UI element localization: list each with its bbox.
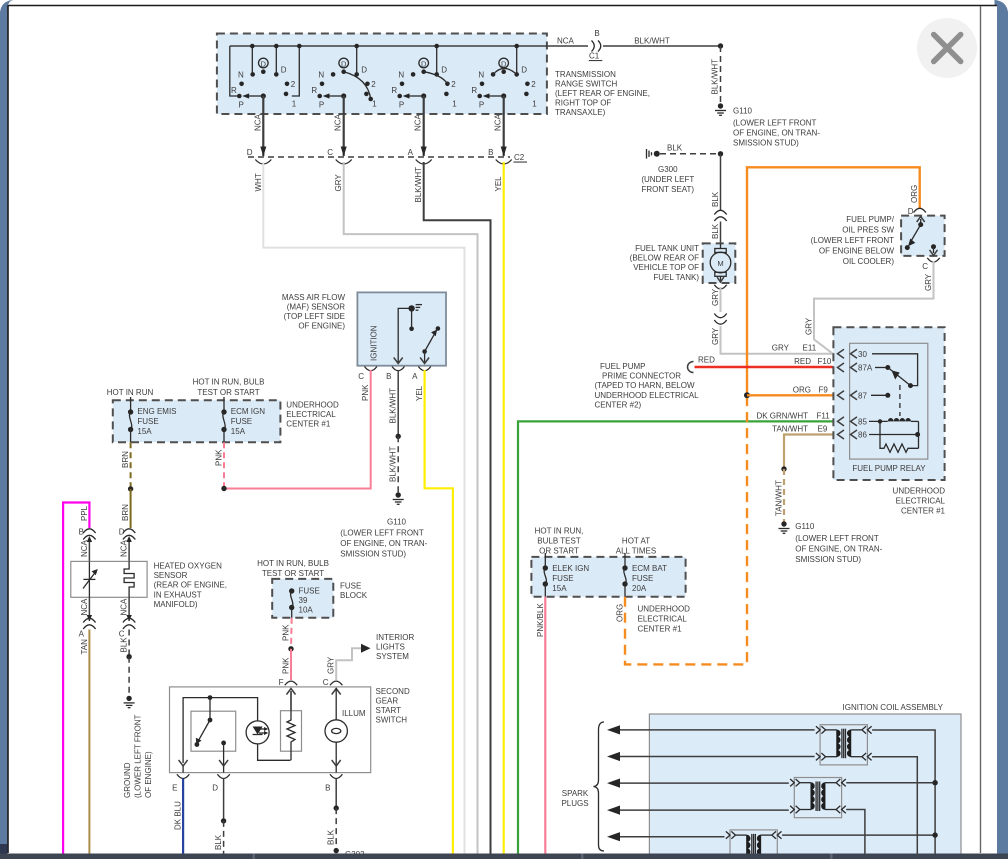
svg-text:TRANSAXLE): TRANSAXLE) <box>555 108 606 117</box>
svg-text:P: P <box>479 101 484 110</box>
svg-text:(LEFT REAR OF ENGINE,: (LEFT REAR OF ENGINE, <box>555 89 650 98</box>
svg-text:SWITCH: SWITCH <box>376 716 408 725</box>
svg-text:87A: 87A <box>858 364 873 373</box>
svg-text:BLK: BLK <box>120 637 129 653</box>
wire BLK (dashed) G300 to splice <box>660 144 721 154</box>
svg-text:87: 87 <box>858 391 867 400</box>
svg-text:FRONT SEAT): FRONT SEAT) <box>642 185 695 194</box>
svg-text:PRIME CONNECTOR: PRIME CONNECTOR <box>602 372 681 381</box>
svg-text:D: D <box>501 59 507 68</box>
wire PNK (dashed) from fuse 39 <box>282 618 292 649</box>
relay pin 30 terminal <box>838 349 868 359</box>
svg-text:TRANSMISSION: TRANSMISSION <box>555 70 616 79</box>
wire PNK from MAF-C down, left to ECM IGN fuse splice <box>224 370 371 489</box>
svg-text:RANGE SWITCH: RANGE SWITCH <box>555 80 617 89</box>
fuel pump relay body <box>850 343 928 473</box>
svg-text:N: N <box>478 71 484 80</box>
svg-text:CENTER #1: CENTER #1 <box>901 507 946 516</box>
label: fuse block <box>340 582 368 601</box>
transmission range switch enclosure <box>217 34 547 115</box>
fuse block box <box>272 579 333 618</box>
svg-text:30: 30 <box>858 350 867 359</box>
wire GRY below fuel tank <box>711 285 727 312</box>
svg-text:BLK/WHT: BLK/WHT <box>634 37 670 46</box>
svg-text:F9: F9 <box>819 385 829 394</box>
svg-text:HOT AT: HOT AT <box>622 537 650 546</box>
svg-text:39: 39 <box>299 596 308 605</box>
svg-text:NCA: NCA <box>557 37 575 46</box>
connector C2 <box>247 148 527 164</box>
svg-text:PPL: PPL <box>80 505 89 521</box>
relay resistor (parallel) <box>880 421 919 452</box>
label: hot at all times <box>616 537 656 556</box>
svg-text:R: R <box>471 86 477 95</box>
svg-text:BRN: BRN <box>121 504 130 521</box>
O2 heater element <box>124 561 134 597</box>
wire PNK/BLK from ELEK IGN fuse to bottom <box>536 597 546 854</box>
svg-text:C: C <box>358 372 364 381</box>
svg-text:A: A <box>79 630 85 639</box>
wire BLK to fuel tank unit <box>711 222 721 244</box>
svg-text:HOT IN RUN: HOT IN RUN <box>107 388 154 397</box>
splice on ORG wire <box>744 392 750 398</box>
svg-text:DK BLU: DK BLU <box>174 801 183 830</box>
svg-text:CENTER #2): CENTER #2) <box>595 400 642 409</box>
svg-text:BRN: BRN <box>121 451 130 468</box>
svg-text:CENTER #1: CENTER #1 <box>286 420 331 429</box>
MAF terminals C B A <box>358 367 431 382</box>
svg-text:HOT IN RUN, BULB: HOT IN RUN, BULB <box>193 378 265 387</box>
svg-text:2: 2 <box>531 80 536 89</box>
svg-text:NCA: NCA <box>494 113 503 131</box>
svg-text:P: P <box>319 101 324 110</box>
svg-text:10A: 10A <box>299 606 314 615</box>
connector C of oil pressure switch <box>922 258 939 271</box>
svg-text:BLK: BLK <box>711 191 720 207</box>
wire YEL from MAF-A down, right, down to bottom of page <box>415 370 453 854</box>
label: mass air flow sensor <box>282 293 346 331</box>
svg-text:IGNITION COIL ASSEMBLY: IGNITION COIL ASSEMBLY <box>843 703 944 712</box>
svg-text:PNK: PNK <box>361 384 370 401</box>
connector A of O2 sensor <box>79 597 96 638</box>
svg-text:UNDERHOOD ELECTRICAL: UNDERHOOD ELECTRICAL <box>595 391 700 400</box>
wire to spark plug 3 <box>607 779 789 788</box>
svg-text:ELEK IGN: ELEK IGN <box>552 564 589 573</box>
ILLUM lamp <box>325 688 366 773</box>
label: underhood electrical center #1 (relay) <box>893 487 946 516</box>
svg-text:FUEL PUMP/: FUEL PUMP/ <box>846 215 894 224</box>
svg-text:GROUND: GROUND <box>123 762 132 798</box>
wire TAN from O2-A down to bottom <box>80 630 90 854</box>
relay pin 86 terminal <box>838 430 868 440</box>
svg-text:GEAR: GEAR <box>376 697 399 706</box>
wire BLK/WHT (dashed) down to ground G110 <box>711 46 721 104</box>
svg-text:1: 1 <box>452 100 457 109</box>
svg-text:SMISSION STUD): SMISSION STUD) <box>733 139 799 148</box>
svg-text:FUSE: FUSE <box>299 587 320 596</box>
svg-text:BLK/WHT: BLK/WHT <box>389 446 398 482</box>
wire BLK/WHT (dashed) to ground <box>389 436 399 493</box>
svg-text:ENG EMIS: ENG EMIS <box>137 407 176 416</box>
oil pressure switch contacts <box>905 217 938 256</box>
svg-text:F11: F11 <box>817 411 831 420</box>
svg-text:NCA: NCA <box>334 113 343 131</box>
svg-text:FUSE: FUSE <box>632 574 653 583</box>
svg-text:FUSE: FUSE <box>137 417 158 426</box>
svg-text:15A: 15A <box>552 584 567 593</box>
svg-text:85: 85 <box>858 417 867 426</box>
svg-text:G110: G110 <box>795 522 815 531</box>
svg-text:TEST OR START: TEST OR START <box>197 388 259 397</box>
fuel pump / oil pressure switch box <box>901 216 945 256</box>
svg-text:B: B <box>325 784 330 793</box>
svg-text:SENSOR: SENSOR <box>154 571 188 580</box>
underhood electrical center #1 box (relay) <box>833 327 944 480</box>
wire NCA from switch pole 3 to connector C2 <box>414 96 427 157</box>
fuse ECM IGN 15A <box>221 397 265 442</box>
svg-text:GRY: GRY <box>327 656 336 674</box>
svg-text:C: C <box>327 148 333 157</box>
wire to spark plug 2 <box>607 752 815 761</box>
svg-text:(UNDER LEFT: (UNDER LEFT <box>641 175 694 184</box>
arrow to interior lights system <box>361 633 414 661</box>
svg-text:ECM BAT: ECM BAT <box>632 564 667 573</box>
underhood electrical center #1 box (fuses) <box>531 557 685 597</box>
svg-text:86: 86 <box>858 431 867 440</box>
svg-text:FUSE: FUSE <box>552 574 573 583</box>
wire BLK from B to ground G302 <box>327 779 365 859</box>
wire TAN/WHT from relay 86/E9 to ground <box>772 425 833 523</box>
wire WHT from C2-D down and across to right, to bottom of page <box>254 162 465 854</box>
fuse 39 10A <box>289 587 320 618</box>
svg-text:BLK: BLK <box>327 829 336 845</box>
wire GRY from oil switch C to relay <box>805 262 934 354</box>
svg-text:E9: E9 <box>818 425 828 434</box>
splice node <box>718 151 723 156</box>
svg-text:(LOWER LEFT FRONT: (LOWER LEFT FRONT <box>733 119 817 128</box>
svg-text:PNK: PNK <box>282 657 291 674</box>
svg-text:VEHICLE TOP OF: VEHICLE TOP OF <box>633 263 699 272</box>
wire DK BLU from E to bottom <box>174 779 184 854</box>
label: transmission range switch location <box>555 70 650 117</box>
wire ORG from splice to fuel pump/oil pressure switch <box>747 167 920 395</box>
svg-text:G300: G300 <box>658 165 678 174</box>
splice on BRN <box>128 486 133 491</box>
svg-text:SECOND: SECOND <box>376 687 410 696</box>
svg-text:D: D <box>361 66 367 75</box>
svg-text:IN EXHAUST: IN EXHAUST <box>154 590 202 599</box>
splice node on BLK/WHT <box>718 43 723 48</box>
spark plugs brace and label <box>561 722 604 851</box>
wire BLK/WHT from C2-A down and across, to bottom of page <box>414 162 490 854</box>
connector B of O2 sensor <box>79 528 96 562</box>
transmission range switch pole 2 contacts <box>311 44 377 110</box>
svg-text:2: 2 <box>451 80 456 89</box>
svg-text:GRY: GRY <box>772 344 790 353</box>
switch contact box <box>191 711 236 751</box>
svg-text:SMISSION STUD): SMISSION STUD) <box>795 555 861 564</box>
label: fuel pump / oil pres sw <box>811 215 895 266</box>
wire BRN (dashed) from ENG EMIS fuse <box>121 442 131 489</box>
svg-text:TEST OR START: TEST OR START <box>262 569 324 578</box>
wire BLK/WHT from C1 to splice <box>603 37 721 47</box>
svg-text:ORG: ORG <box>793 385 811 394</box>
svg-text:PNK/BLK: PNK/BLK <box>536 603 545 637</box>
svg-text:B: B <box>386 372 391 381</box>
svg-text:OF ENGINE, ON TRAN-: OF ENGINE, ON TRAN- <box>733 129 820 138</box>
fuel pump motor M <box>710 243 731 282</box>
label: hot in run <box>107 388 154 397</box>
svg-text:BLK/WHT: BLK/WHT <box>711 59 720 95</box>
wire from coil C1 primary down <box>872 757 917 854</box>
svg-text:NCA: NCA <box>414 113 423 131</box>
wire GRY from second gear switch C to interior lights <box>323 648 361 687</box>
connector C of O2 sensor <box>119 597 136 638</box>
fuse ECM BAT 20A <box>622 553 667 597</box>
wire: switch common rail (top bus) <box>230 45 588 47</box>
svg-text:UNDERHOOD: UNDERHOOD <box>286 401 339 410</box>
svg-text:FUEL TANK UNIT: FUEL TANK UNIT <box>635 244 699 253</box>
wire to spark plug 5 <box>607 832 725 841</box>
svg-text:UNDERHOOD: UNDERHOOD <box>638 605 691 614</box>
svg-text:(LOWER LEFT FRONT: (LOWER LEFT FRONT <box>811 236 895 245</box>
svg-text:HEATED OXYGEN: HEATED OXYGEN <box>154 562 223 571</box>
svg-text:C1: C1 <box>589 52 600 61</box>
transmission range switch pole 1 contacts <box>230 44 302 110</box>
svg-text:TAN/WHT: TAN/WHT <box>772 425 808 434</box>
svg-text:D: D <box>247 148 253 157</box>
svg-text:(BELOW REAR OF: (BELOW REAR OF <box>630 254 699 263</box>
wire ORG to relay 87/F9 <box>747 385 833 395</box>
transmission range switch pole 4 contacts <box>471 44 537 110</box>
svg-text:BLK/WHT: BLK/WHT <box>414 167 423 203</box>
svg-text:GRY: GRY <box>711 327 720 345</box>
svg-text:(LOWER LEFT FRONT: (LOWER LEFT FRONT <box>340 529 424 538</box>
wire NCA from switch pole 1 to connector C2 <box>253 96 266 157</box>
fuel tank unit box <box>703 243 736 283</box>
close button <box>917 18 977 78</box>
svg-text:B: B <box>488 148 493 157</box>
wire GRY from C2-C down and across, to bottom of page <box>334 162 477 854</box>
svg-text:WHT: WHT <box>254 173 263 191</box>
ground G300 <box>641 149 694 194</box>
transmission range switch pole 3 contacts <box>391 44 457 110</box>
svg-text:OF ENGINE BELOW: OF ENGINE BELOW <box>819 247 895 256</box>
wire DK GRN/WHT from left to relay 85/F11 <box>518 411 833 853</box>
svg-text:MANIFOLD): MANIFOLD) <box>154 600 198 609</box>
wire GRY to fuel pump relay 30/E11 <box>711 326 833 354</box>
svg-text:BLOCK: BLOCK <box>340 591 368 600</box>
label: hot in run bulb test or start (elek ign) <box>535 527 584 556</box>
svg-text:ORG: ORG <box>910 185 919 203</box>
svg-text:BLK: BLK <box>711 223 720 239</box>
svg-text:1: 1 <box>532 100 537 109</box>
ignition coil C2 <box>790 778 846 818</box>
ground (lower left front of engine) <box>123 696 153 798</box>
fuse ELEK IGN 15A <box>543 553 590 597</box>
svg-text:ILLUM: ILLUM <box>342 709 366 718</box>
wire from coil C2 primary down <box>846 810 865 854</box>
svg-text:SYSTEM: SYSTEM <box>376 652 409 661</box>
svg-text:IGNITION: IGNITION <box>370 325 379 361</box>
svg-text:C: C <box>922 262 928 271</box>
wire to spark plug 1 <box>607 725 815 734</box>
label: underhood electrical center #1 (left) <box>286 401 339 429</box>
svg-text:START: START <box>376 706 402 715</box>
svg-text:(REAR OF ENGINE,: (REAR OF ENGINE, <box>154 581 227 590</box>
ignition coil C1 <box>816 725 872 765</box>
svg-text:R: R <box>391 86 397 95</box>
wire NCA from switch pole 4 to connector C2 <box>494 96 507 157</box>
resistor (illumination dropping) <box>281 691 302 760</box>
wire BLK (dashed) from O2-C to engine ground <box>120 630 132 697</box>
connector D of O2 sensor <box>119 528 136 562</box>
wire to spark plug 4 <box>607 806 789 815</box>
svg-text:(MAF) SENSOR: (MAF) SENSOR <box>287 303 345 312</box>
label: fuel tank unit <box>630 244 700 282</box>
svg-text:15A: 15A <box>137 427 152 436</box>
svg-text:(LOWER LEFT FRONT: (LOWER LEFT FRONT <box>795 534 879 543</box>
ignition coil C3 <box>726 830 782 859</box>
relay pin 85 terminal <box>838 417 868 427</box>
terminal C entry <box>330 681 342 694</box>
terminal F entry <box>285 681 297 711</box>
svg-text:RED: RED <box>794 357 811 366</box>
svg-text:D: D <box>341 59 347 68</box>
svg-text:D: D <box>212 784 218 793</box>
terminal E exit <box>172 774 189 792</box>
wire BLK from D <box>214 779 226 854</box>
svg-text:OF ENGINE, ON TRAN-: OF ENGINE, ON TRAN- <box>340 539 427 548</box>
svg-text:YEL: YEL <box>494 176 503 192</box>
inline connector on BLK <box>714 210 726 221</box>
terminal B exit <box>325 774 342 792</box>
svg-text:ECM IGN: ECM IGN <box>231 407 265 416</box>
ground G110 (relay tan/wht) <box>779 521 883 564</box>
svg-text:YEL: YEL <box>415 385 424 401</box>
svg-text:NCA: NCA <box>120 598 129 616</box>
label: underhood electrical center #1 (fuses) <box>638 605 691 634</box>
wire ORG (dashed) from ECM BAT fuse to relay splice <box>616 398 748 664</box>
svg-text:E11: E11 <box>803 344 817 353</box>
splice on PNK <box>221 486 226 491</box>
svg-text:RED: RED <box>698 356 715 365</box>
svg-text:B: B <box>594 29 599 38</box>
terminal D exit <box>212 774 230 792</box>
svg-text:(TAPED TO HARN, BELOW: (TAPED TO HARN, BELOW <box>595 381 695 390</box>
svg-text:P: P <box>238 101 243 110</box>
underhood electrical center #1 box (left) <box>113 400 281 442</box>
svg-text:20A: 20A <box>632 584 647 593</box>
svg-text:CENTER #1: CENTER #1 <box>638 625 683 634</box>
wire BRN to O2 sensor connector D <box>121 489 131 528</box>
illumination diode <box>246 711 290 760</box>
svg-text:D: D <box>421 59 427 68</box>
svg-text:TAN/WHT: TAN/WHT <box>775 480 784 516</box>
svg-text:ELECTRICAL: ELECTRICAL <box>286 410 336 419</box>
svg-text:N: N <box>318 71 324 80</box>
svg-text:N: N <box>238 71 244 80</box>
connector D of oil pressure switch <box>908 207 926 216</box>
fuse ENG EMIS 15A <box>128 397 177 442</box>
label: ignition coil assembly <box>843 703 944 712</box>
svg-text:FUEL TANK): FUEL TANK) <box>653 273 699 282</box>
svg-text:2: 2 <box>291 80 296 89</box>
svg-text:OIL COOLER): OIL COOLER) <box>843 257 895 266</box>
ground G110 (MAF) <box>340 492 427 558</box>
svg-text:C2: C2 <box>514 153 525 162</box>
second gear switch contacts <box>195 695 229 772</box>
MAF sensor body <box>357 292 446 365</box>
splice on MAF BLK/WHT <box>396 434 401 439</box>
svg-text:UNDERHOOD: UNDERHOOD <box>893 487 946 496</box>
svg-text:NCA: NCA <box>253 113 262 131</box>
svg-text:ORG: ORG <box>616 604 625 622</box>
svg-text:G110: G110 <box>387 518 407 527</box>
svg-text:A: A <box>412 372 418 381</box>
svg-text:BLK: BLK <box>214 834 223 850</box>
svg-text:FUEL PUMP RELAY: FUEL PUMP RELAY <box>852 464 926 473</box>
svg-text:D: D <box>261 59 267 68</box>
svg-text:N: N <box>398 71 404 80</box>
label: fuel pump prime connector <box>595 362 700 409</box>
svg-text:2: 2 <box>371 80 376 89</box>
wire YEL from C2-B straight down to bottom of page <box>494 162 504 854</box>
svg-text:BULB TEST: BULB TEST <box>537 537 581 546</box>
svg-text:HOT IN RUN,: HOT IN RUN, <box>535 527 584 536</box>
wire from coil C1 secondary to bus <box>872 730 935 854</box>
svg-text:15A: 15A <box>231 427 246 436</box>
svg-text:MASS AIR FLOW: MASS AIR FLOW <box>282 293 346 302</box>
svg-text:1: 1 <box>292 100 297 109</box>
inline connector on GRY <box>714 314 726 325</box>
O2 sensing element (variable) <box>83 561 98 597</box>
label: hot in run, bulb test or start <box>193 378 265 398</box>
svg-text:C: C <box>323 678 329 687</box>
second gear start switch body <box>170 687 371 773</box>
svg-text:GRY: GRY <box>334 174 343 192</box>
svg-text:FUEL PUMP: FUEL PUMP <box>600 362 646 371</box>
wire NCA from switch pole 2 to connector C2 <box>334 96 347 157</box>
svg-text:(LOWER LEFT FRONT: (LOWER LEFT FRONT <box>134 714 143 798</box>
svg-text:M: M <box>717 259 723 268</box>
wire from coil C2 secondary to bus <box>846 780 938 785</box>
svg-text:SMISSION STUD): SMISSION STUD) <box>340 550 406 559</box>
MAF internal ignition feed wire <box>394 308 409 363</box>
svg-text:BLK/WHT: BLK/WHT <box>389 388 398 424</box>
svg-text:PNK: PNK <box>282 624 291 641</box>
relay armature link (dashed) <box>899 385 901 416</box>
label: hot in run bulb test or start (fuse block) <box>257 559 329 578</box>
svg-text:GRY: GRY <box>805 317 814 335</box>
label NCA on rail at C1 <box>557 37 575 46</box>
svg-text:GRY: GRY <box>924 273 933 291</box>
svg-text:LIGHTS: LIGHTS <box>376 643 405 652</box>
svg-text:INTERIOR: INTERIOR <box>376 633 414 642</box>
relay pin 87 terminal <box>838 391 868 401</box>
relay pin 87A terminal <box>838 363 873 373</box>
svg-text:ALL TIMES: ALL TIMES <box>616 547 656 556</box>
connector C1 pin B <box>589 29 603 61</box>
wire RED from prime connector to relay 87A/F10 <box>695 357 834 367</box>
svg-text:D: D <box>281 66 287 75</box>
svg-text:ELECTRICAL: ELECTRICAL <box>638 615 688 624</box>
svg-text:NCA: NCA <box>80 539 89 557</box>
svg-text:NCA: NCA <box>120 539 129 557</box>
label: heated oxygen sensor <box>154 562 227 609</box>
svg-text:DK GRN/WHT: DK GRN/WHT <box>756 411 808 420</box>
svg-text:PLUGS: PLUGS <box>561 799 588 808</box>
